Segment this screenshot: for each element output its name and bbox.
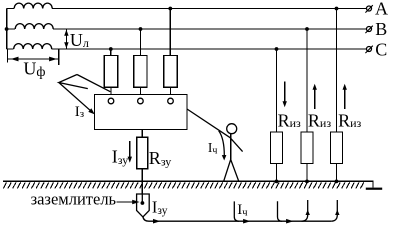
svg-text:B: B (375, 19, 387, 39)
svg-text:заземлитель: заземлитель (31, 190, 117, 209)
svg-text:A: A (375, 0, 388, 19)
svg-text:C: C (375, 40, 387, 60)
